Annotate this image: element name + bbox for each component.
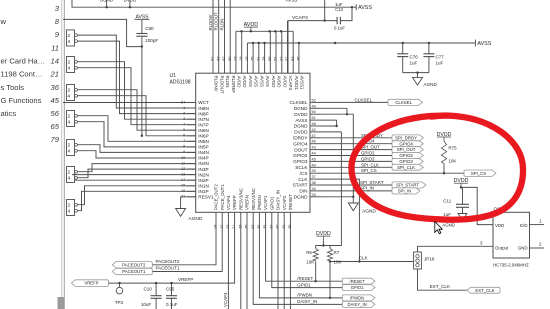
svg-text:GPIO1: GPIO1 <box>297 282 311 287</box>
svg-text:/PWDN: /PWDN <box>297 293 312 298</box>
svg-text:11: 11 <box>51 43 59 52</box>
svg-text:AVSS: AVSS <box>254 76 259 87</box>
svg-text:VREFP: VREFP <box>84 281 98 286</box>
svg-text:VREFP: VREFP <box>178 277 193 282</box>
svg-text:45: 45 <box>51 96 60 105</box>
svg-text:4: 4 <box>68 209 71 215</box>
svg-text:AVDD: AVDD <box>271 76 276 88</box>
svg-text:14: 14 <box>51 56 59 65</box>
svg-text:SPI_DRDY: SPI_DRDY <box>395 135 417 140</box>
svg-text:/RESET: /RESET <box>350 279 366 284</box>
svg-text:PACEOUT2: PACEOUT2 <box>156 259 180 264</box>
svg-text:52: 52 <box>312 98 316 102</box>
svg-text:50: 50 <box>312 110 316 114</box>
svg-text:43: 43 <box>312 146 316 150</box>
svg-text:IN2N: IN2N <box>198 172 209 177</box>
svg-text:AVSS: AVSS <box>286 0 297 3</box>
svg-text:47: 47 <box>312 134 316 138</box>
svg-text:VCAP2: VCAP2 <box>282 195 287 210</box>
svg-text:4: 4 <box>68 39 71 45</box>
svg-text:G Functions: G Functions <box>1 96 42 105</box>
svg-text:DAISY_IN: DAISY_IN <box>276 190 281 210</box>
svg-text:DVDD: DVDD <box>294 130 308 135</box>
svg-text:42: 42 <box>312 128 316 132</box>
svg-text:VDD: VDD <box>495 223 504 228</box>
svg-text:C90: C90 <box>145 26 154 31</box>
svg-text:VCAP3: VCAP3 <box>288 76 293 91</box>
svg-text:GPIO3: GPIO3 <box>361 156 375 161</box>
svg-text:4: 4 <box>68 94 71 100</box>
svg-text:SPI_CS: SPI_CS <box>471 171 486 176</box>
svg-text:AVDD: AVDD <box>237 76 242 88</box>
svg-text:IN7N: IN7N <box>198 117 209 122</box>
svg-text:RLDINV: RLDINV <box>214 76 219 92</box>
svg-text:SPI_CLK: SPI_CLK <box>397 165 415 170</box>
svg-text:WCT: WCT <box>198 100 209 105</box>
svg-text:1uF: 1uF <box>436 60 444 65</box>
svg-text:AVSS: AVSS <box>265 76 270 87</box>
svg-text:36: 36 <box>51 83 60 92</box>
svg-text:CLK: CLK <box>298 177 308 182</box>
svg-text:2: 2 <box>68 203 71 209</box>
svg-text:AVSS: AVSS <box>248 76 253 87</box>
svg-text:AVSS1: AVSS1 <box>300 76 305 90</box>
svg-text:IN1P: IN1P <box>198 189 208 194</box>
svg-text:DVDD: DVDD <box>124 0 136 3</box>
svg-text:10uF: 10uF <box>141 302 152 307</box>
svg-text:18: 18 <box>239 56 243 60</box>
svg-text:0.1uF: 0.1uF <box>334 25 345 30</box>
svg-text:34: 34 <box>312 187 316 191</box>
svg-text:GPIO3: GPIO3 <box>399 159 413 164</box>
svg-text:C11: C11 <box>443 198 451 203</box>
svg-text:E/D: E/D <box>520 223 527 228</box>
svg-text:IN3P: IN3P <box>198 167 208 172</box>
svg-text:PACEOUT1: PACEOUT1 <box>122 269 146 274</box>
svg-text:GPIO1: GPIO1 <box>269 196 274 210</box>
svg-text:/RESET: /RESET <box>297 276 313 281</box>
svg-text:RLDINV: RLDINV <box>208 14 213 30</box>
svg-text:4: 4 <box>68 149 71 155</box>
svg-text:45: 45 <box>312 157 316 161</box>
svg-text:2: 2 <box>68 143 71 149</box>
svg-text:ADS1198: ADS1198 <box>170 80 191 86</box>
svg-text:RLDREF: RLDREF <box>231 76 236 94</box>
svg-text:DGND: DGND <box>294 106 308 111</box>
svg-text:VREFP: VREFP <box>232 195 237 210</box>
svg-text:AVSS: AVSS <box>358 5 372 11</box>
svg-text:GPIO1: GPIO1 <box>351 285 364 290</box>
svg-text:/DRDY: /DRDY <box>293 136 308 141</box>
svg-text:48: 48 <box>312 122 316 126</box>
svg-text:JP18: JP18 <box>424 257 435 262</box>
svg-text:RESV3/NC: RESV3/NC <box>238 188 243 210</box>
svg-text:EXT_CLK: EXT_CLK <box>430 284 451 289</box>
svg-text:VCAP4: VCAP4 <box>226 195 231 210</box>
svg-text:DOUT: DOUT <box>294 147 307 152</box>
svg-text:VCAP4: VCAP4 <box>223 292 228 307</box>
svg-text:AVDD: AVDD <box>277 76 282 88</box>
svg-text:DIN: DIN <box>299 189 307 194</box>
svg-text:49: 49 <box>312 104 316 108</box>
svg-text:VCAP1: VCAP1 <box>263 195 268 210</box>
svg-text:37: 37 <box>312 175 316 179</box>
svg-text:IN1N: IN1N <box>198 183 209 188</box>
svg-text:CLKSEL: CLKSEL <box>395 100 412 105</box>
svg-text:1198 Cont…: 1198 Cont… <box>1 70 43 79</box>
svg-text:AGND: AGND <box>424 82 438 87</box>
svg-text:2: 2 <box>68 60 71 66</box>
svg-text:C77: C77 <box>436 55 445 60</box>
svg-text:2: 2 <box>68 170 71 176</box>
svg-text:PACEOUT2: PACEOUT2 <box>122 262 146 267</box>
svg-text:10K: 10K <box>306 260 314 265</box>
svg-text:IN6P: IN6P <box>198 134 208 139</box>
svg-text:39: 39 <box>312 169 316 173</box>
svg-text:er Card Ha…: er Card Ha… <box>1 56 46 65</box>
svg-text:38: 38 <box>312 181 316 185</box>
svg-text:33: 33 <box>312 193 316 197</box>
svg-text:0.1uF: 0.1uF <box>166 302 178 307</box>
svg-text:VREFN: VREFN <box>245 195 250 210</box>
svg-text:CLKSEL: CLKSEL <box>290 100 308 105</box>
svg-text:79: 79 <box>51 135 60 144</box>
svg-text:DAISY_IN: DAISY_IN <box>297 299 317 304</box>
svg-text:SPI_CS: SPI_CS <box>361 168 377 173</box>
svg-text:GPIO2: GPIO2 <box>293 153 308 158</box>
svg-text:GPIO2: GPIO2 <box>399 153 413 158</box>
svg-text:2: 2 <box>68 114 71 120</box>
svg-text:AVDD: AVDD <box>242 76 247 88</box>
svg-text:46: 46 <box>312 140 316 144</box>
svg-text:SPI_START: SPI_START <box>360 180 384 185</box>
svg-text:2: 2 <box>68 33 71 39</box>
svg-text:VCAP3: VCAP3 <box>292 15 308 21</box>
svg-text:1uF: 1uF <box>443 212 451 217</box>
svg-text:IN7P: IN7P <box>198 122 208 127</box>
svg-text:SPI_START: SPI_START <box>396 183 419 188</box>
svg-text:AVSS: AVSS <box>477 41 491 47</box>
svg-text:AGND: AGND <box>362 209 376 215</box>
svg-text:IN5P: IN5P <box>198 145 208 150</box>
svg-text:DAISY_IN: DAISY_IN <box>348 302 367 307</box>
svg-text:10K: 10K <box>334 260 342 265</box>
svg-text:GPIO4: GPIO4 <box>399 141 413 146</box>
svg-text:GPIO2: GPIO2 <box>361 151 375 156</box>
svg-text:HC735-2.048MHZ: HC735-2.048MHZ <box>493 262 529 267</box>
svg-text:GPIO4: GPIO4 <box>293 141 308 146</box>
svg-text:/PWDN: /PWDN <box>350 296 364 301</box>
svg-text:IN8P: IN8P <box>198 111 208 116</box>
svg-text:AVDD: AVDD <box>282 76 287 88</box>
svg-text:R75: R75 <box>448 146 457 151</box>
svg-text:DGND: DGND <box>294 124 308 129</box>
svg-text:w: w <box>0 17 7 26</box>
svg-text:DGND: DGND <box>294 195 308 200</box>
svg-text:AVSS: AVSS <box>295 118 307 123</box>
svg-text:65: 65 <box>51 122 60 131</box>
svg-text:AGND: AGND <box>189 216 203 222</box>
svg-text:SCLK: SCLK <box>295 165 308 170</box>
svg-text:SPI_CLK: SPI_CLK <box>361 162 379 167</box>
svg-text:4: 4 <box>68 66 71 72</box>
svg-text:TP3: TP3 <box>115 300 124 305</box>
svg-text:C10: C10 <box>144 287 153 292</box>
svg-text:C95: C95 <box>166 287 175 292</box>
svg-text:51: 51 <box>312 116 316 120</box>
svg-text:DGND: DGND <box>100 0 113 3</box>
svg-text:START: START <box>293 183 308 188</box>
svg-text:U1: U1 <box>170 73 177 79</box>
svg-text:56: 56 <box>51 109 60 118</box>
svg-text:IN3N: IN3N <box>198 161 209 166</box>
svg-text:40: 40 <box>312 163 316 167</box>
svg-text:1uF: 1uF <box>410 60 418 65</box>
svg-text:IN8N: IN8N <box>198 106 209 111</box>
svg-text:C13: C13 <box>335 7 343 12</box>
svg-text:AGND: AGND <box>442 222 455 227</box>
svg-text:44: 44 <box>312 152 316 156</box>
svg-text:PACE_OUT1: PACE_OUT1 <box>220 184 225 210</box>
svg-text:CLKSEL: CLKSEL <box>355 98 373 103</box>
svg-text:AVSS: AVSS <box>259 76 264 87</box>
svg-text:/RESET: /RESET <box>288 194 293 210</box>
svg-text:4: 4 <box>68 176 71 182</box>
svg-text:2: 2 <box>68 88 71 94</box>
svg-text:RLDN: RLDN <box>225 76 230 88</box>
svg-text:RLDOUT: RLDOUT <box>214 12 219 30</box>
svg-text:100pF: 100pF <box>145 38 158 43</box>
svg-text:SPI_IN: SPI_IN <box>398 189 412 194</box>
svg-text:10K: 10K <box>448 159 456 164</box>
svg-text:DVDD: DVDD <box>294 112 308 117</box>
svg-text:CLK: CLK <box>359 256 369 261</box>
svg-text:s Tools: s Tools <box>1 83 25 92</box>
svg-text:IN4P: IN4P <box>198 156 208 161</box>
svg-text:RESV1: RESV1 <box>198 195 214 200</box>
svg-text:GND: GND <box>518 246 528 251</box>
svg-text:IN4N: IN4N <box>198 150 209 155</box>
svg-text:R6: R6 <box>306 250 312 255</box>
svg-text:GPIO3: GPIO3 <box>293 159 308 164</box>
svg-text:atics: atics <box>1 109 17 118</box>
svg-text:C76: C76 <box>410 55 419 60</box>
svg-text:EXT_CLK: EXT_CLK <box>475 288 494 293</box>
svg-text:4: 4 <box>68 120 71 126</box>
svg-text:R7: R7 <box>334 250 340 255</box>
svg-text:RESV2/NC: RESV2/NC <box>251 188 256 210</box>
svg-text:21: 21 <box>50 70 59 79</box>
svg-text:SPI_OUT: SPI_OUT <box>397 147 416 152</box>
svg-text:AVDD1: AVDD1 <box>294 76 299 91</box>
svg-text:Output: Output <box>495 246 509 251</box>
svg-text:RLDN: RLDN <box>219 19 224 31</box>
svg-text:PACEOUT1: PACEOUT1 <box>156 266 180 271</box>
svg-text:IN6N: IN6N <box>198 128 209 133</box>
svg-text:/PWDN: /PWDN <box>257 195 262 210</box>
svg-text:RLDOUT: RLDOUT <box>219 76 224 94</box>
svg-text:IN5N: IN5N <box>198 139 209 144</box>
svg-text:IN2P: IN2P <box>198 178 208 183</box>
svg-text:PACE_OUT2: PACE_OUT2 <box>214 184 219 210</box>
svg-text:/CS: /CS <box>300 171 308 176</box>
